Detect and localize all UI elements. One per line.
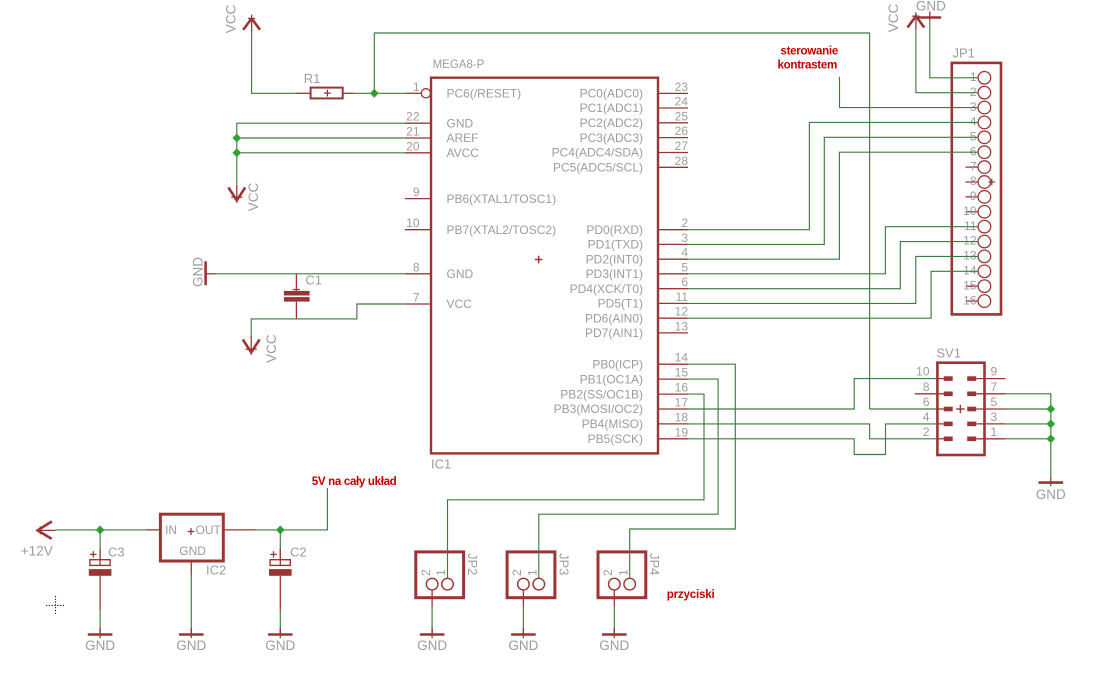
wire +12V to IC2 IN bbox=[56, 529, 146, 531]
svg-text:PB2(SS/OC1B): PB2(SS/OC1B) bbox=[560, 387, 643, 401]
junction AREF node bbox=[232, 134, 241, 143]
svg-text:1: 1 bbox=[413, 80, 420, 94]
svg-text:9: 9 bbox=[991, 365, 998, 379]
junction SV1 pin5 node bbox=[1046, 405, 1055, 414]
svg-text:GND: GND bbox=[417, 638, 447, 653]
ground symbol under JP2 bbox=[420, 628, 445, 638]
wire PB5 to SV1 pin4 bbox=[688, 424, 936, 455]
svg-text:14: 14 bbox=[675, 351, 689, 365]
svg-text:8: 8 bbox=[413, 260, 420, 274]
svg-text:3: 3 bbox=[970, 100, 977, 114]
svg-text:8: 8 bbox=[923, 380, 930, 394]
wire PD net to JP1 pin11 bbox=[688, 227, 978, 274]
wire SV1 pin1 to ground bbox=[1006, 438, 1051, 440]
IC IC1 body MEGA8-P bbox=[431, 78, 658, 454]
JP3 pin labels bbox=[510, 569, 539, 576]
svg-text:13: 13 bbox=[675, 319, 689, 333]
wire IC2 GND lead bbox=[190, 575, 192, 634]
svg-text:C3: C3 bbox=[108, 545, 125, 560]
power symbol GND top-right bbox=[918, 12, 942, 21]
wire JP2 pin2 to ground bbox=[431, 607, 433, 635]
IC1 left pin numbers bbox=[406, 80, 420, 305]
svg-text:PC1(ADC1): PC1(ADC1) bbox=[580, 101, 643, 115]
wire PB0 to JP4 bbox=[630, 364, 736, 578]
wire SV1 pin5 to ground bbox=[1006, 408, 1051, 410]
svg-text:PC3(ADC3): PC3(ADC3) bbox=[580, 131, 643, 145]
ground symbol under C3 bbox=[88, 628, 113, 638]
wire VCC to JP1 pin2 bbox=[916, 31, 978, 93]
svg-text:7: 7 bbox=[970, 159, 977, 173]
JP3 refdes bbox=[556, 553, 571, 575]
GND label under JP2 bbox=[417, 638, 447, 653]
svg-text:10: 10 bbox=[916, 365, 930, 379]
wire PD net to JP1 pin12 bbox=[688, 242, 978, 289]
svg-text:18: 18 bbox=[675, 410, 689, 424]
svg-text:PB7(XTAL2/TOSC2): PB7(XTAL2/TOSC2) bbox=[447, 223, 557, 237]
wire PB2 to JP2 bbox=[448, 394, 705, 578]
power symbol VCC top-right bbox=[908, 12, 925, 30]
wire AREF pin21 bbox=[237, 137, 405, 139]
ground symbol under JP3 bbox=[511, 628, 536, 638]
svg-text:GND: GND bbox=[447, 116, 474, 130]
svg-text:JP4: JP4 bbox=[647, 553, 662, 575]
svg-text:2: 2 bbox=[510, 569, 524, 576]
svg-text:GND: GND bbox=[191, 257, 206, 287]
IC2 pin label IN bbox=[165, 523, 177, 537]
svg-text:GND: GND bbox=[85, 638, 115, 653]
svg-text:4: 4 bbox=[970, 115, 977, 129]
svg-text:10: 10 bbox=[406, 216, 420, 230]
svg-text:21: 21 bbox=[406, 125, 420, 139]
IC1 left pin names bbox=[447, 87, 557, 312]
VCC label top-left bbox=[224, 5, 239, 34]
svg-text:VCC: VCC bbox=[246, 183, 261, 212]
JP1 pin numbers bbox=[963, 70, 977, 307]
svg-text:GND: GND bbox=[1036, 487, 1066, 502]
svg-text:11: 11 bbox=[964, 219, 977, 233]
svg-text:PD6(AIN0): PD6(AIN0) bbox=[585, 311, 643, 325]
svg-text:C2: C2 bbox=[290, 545, 307, 560]
svg-text:15: 15 bbox=[963, 278, 977, 292]
R1 label bbox=[304, 71, 321, 86]
wire PD net to JP1 pin5 bbox=[688, 137, 978, 244]
svg-text:26: 26 bbox=[675, 124, 689, 138]
voltage regulator IC2 bbox=[146, 514, 256, 575]
svg-text:PB5(SCK): PB5(SCK) bbox=[588, 432, 643, 446]
wire C1 bottom to pin7 VCC bbox=[251, 304, 405, 338]
GND label under SV1 bbox=[1036, 487, 1066, 502]
wire PB1 to JP3 bbox=[539, 379, 718, 578]
svg-text:5: 5 bbox=[991, 395, 998, 409]
JP1 unconnected pin stubs bbox=[966, 167, 979, 301]
sheet origin dotted cross bbox=[46, 596, 66, 616]
VCC label mid-left bbox=[246, 183, 261, 212]
svg-text:2: 2 bbox=[923, 425, 930, 439]
wire GND pin22 bbox=[237, 123, 405, 184]
annotation sterowanie kontrastem bbox=[778, 45, 839, 72]
svg-text:GND: GND bbox=[265, 638, 295, 653]
svg-text:PB0(ICP): PB0(ICP) bbox=[592, 357, 643, 371]
svg-text:19: 19 bbox=[675, 425, 689, 439]
svg-text:PC6(/RESET): PC6(/RESET) bbox=[447, 87, 522, 101]
junction SV1 pin1 node bbox=[1046, 434, 1055, 443]
capacitor C1 bbox=[284, 274, 310, 319]
wire IC2 OUT to 5V bbox=[256, 488, 328, 530]
junction RESET node bbox=[370, 89, 379, 98]
VCC label top-right bbox=[886, 4, 901, 33]
svg-text:7: 7 bbox=[413, 291, 420, 305]
ground symbol under JP4 bbox=[602, 628, 627, 638]
junction C2 node bbox=[276, 526, 285, 535]
svg-text:PB6(XTAL1/TOSC1): PB6(XTAL1/TOSC1) bbox=[447, 192, 557, 206]
svg-text:PC4(ADC4/SDA): PC4(ADC4/SDA) bbox=[552, 146, 643, 160]
svg-text:1: 1 bbox=[434, 569, 448, 576]
svg-text:16: 16 bbox=[963, 293, 977, 307]
svg-text:AREF: AREF bbox=[447, 131, 479, 145]
power input arrow +12V bbox=[38, 521, 56, 539]
svg-text:6: 6 bbox=[970, 144, 977, 158]
svg-text:5V na cały układ: 5V na cały układ bbox=[312, 475, 397, 488]
GND label under C2 bbox=[265, 638, 295, 653]
ground symbol under C2 bbox=[268, 628, 293, 638]
capacitor C2 bbox=[269, 530, 292, 634]
svg-text:R1: R1 bbox=[304, 71, 321, 86]
IC1 left pin stubs bbox=[405, 93, 431, 304]
svg-text:PD2(INT0): PD2(INT0) bbox=[586, 252, 643, 266]
power symbol VCC down mid-left bbox=[228, 184, 245, 203]
svg-text:2: 2 bbox=[970, 85, 977, 99]
svg-text:1: 1 bbox=[991, 425, 998, 439]
svg-text:IN: IN bbox=[165, 523, 177, 537]
IC2 pin label GND bbox=[179, 544, 206, 558]
svg-text:20: 20 bbox=[406, 139, 420, 153]
svg-text:JP2: JP2 bbox=[465, 553, 480, 575]
wire PB4 to SV1 pin2 bbox=[688, 424, 936, 439]
C3 label bbox=[108, 545, 125, 560]
svg-text:2: 2 bbox=[681, 216, 688, 230]
JP1 pin pads bbox=[978, 72, 991, 308]
svg-text:GND: GND bbox=[508, 638, 538, 653]
svg-text:8: 8 bbox=[970, 174, 977, 188]
SV1 pin numbers bbox=[916, 365, 997, 439]
junction C3 node bbox=[96, 526, 105, 535]
svg-text:GND: GND bbox=[447, 267, 474, 281]
wire GND to JP1 pin1 bbox=[930, 21, 978, 78]
svg-text:5: 5 bbox=[970, 130, 977, 144]
svg-text:PD0(RXD): PD0(RXD) bbox=[586, 223, 643, 237]
GND label under IC2 bbox=[176, 638, 206, 653]
svg-text:PC5(ADC5/SCL): PC5(ADC5/SCL) bbox=[553, 161, 643, 175]
svg-text:PD4(XCK/T0): PD4(XCK/T0) bbox=[570, 282, 643, 296]
svg-text:kontrastem: kontrastem bbox=[778, 59, 838, 72]
wire PD net to JP1 pin6 bbox=[688, 152, 978, 259]
connector SV1 body bbox=[937, 363, 984, 455]
IC1 value label MEGA8-P bbox=[433, 59, 485, 71]
svg-text:IC1: IC1 bbox=[431, 457, 451, 472]
connector JP2 bbox=[416, 552, 464, 607]
IC1 right pin names bbox=[552, 87, 643, 446]
svg-text:3: 3 bbox=[991, 410, 998, 424]
wire JP3 pin2 to ground bbox=[522, 607, 524, 635]
svg-text:1: 1 bbox=[970, 70, 977, 84]
svg-text:PD3(INT1): PD3(INT1) bbox=[586, 267, 643, 281]
SV1 refdes bbox=[936, 346, 961, 361]
junction AVCC node bbox=[232, 148, 241, 157]
C2 label bbox=[290, 545, 307, 560]
svg-text:13: 13 bbox=[963, 249, 977, 263]
svg-text:24: 24 bbox=[675, 95, 689, 109]
svg-text:sterowanie: sterowanie bbox=[780, 45, 838, 58]
wire RESET up and across top bbox=[374, 33, 869, 409]
svg-text:11: 11 bbox=[676, 290, 689, 304]
GND label top-right bbox=[916, 0, 946, 14]
junction SV1 pin3 node bbox=[1046, 420, 1055, 429]
svg-text:GND: GND bbox=[916, 0, 946, 14]
power symbol VCC down below C1 bbox=[243, 336, 260, 355]
svg-text:MEGA8-P: MEGA8-P bbox=[433, 59, 485, 71]
ground symbol under IC2 bbox=[179, 628, 204, 638]
connector JP3 bbox=[507, 552, 555, 607]
wire AVCC pin20 bbox=[237, 152, 405, 154]
svg-text:16: 16 bbox=[675, 381, 689, 395]
svg-text:14: 14 bbox=[963, 264, 977, 278]
svg-text:12: 12 bbox=[675, 305, 689, 319]
GND label under JP3 bbox=[508, 638, 538, 653]
JP1 refdes bbox=[953, 46, 975, 61]
svg-text:4: 4 bbox=[923, 410, 930, 424]
svg-text:3: 3 bbox=[681, 231, 688, 245]
svg-text:10: 10 bbox=[963, 204, 977, 218]
GND label under JP4 bbox=[599, 638, 629, 653]
svg-text:9: 9 bbox=[970, 189, 977, 203]
wire PD net to JP1 pin14 bbox=[688, 271, 978, 318]
wire PD net to JP1 pin4 bbox=[688, 122, 978, 229]
svg-text:C1: C1 bbox=[305, 273, 322, 288]
JP2 pin labels bbox=[419, 569, 448, 576]
svg-text:+12V: +12V bbox=[21, 543, 53, 558]
svg-text:JP3: JP3 bbox=[556, 553, 571, 575]
IC1 right pin numbers bbox=[675, 80, 689, 439]
wire PD net to JP1 pin13 bbox=[688, 256, 978, 303]
wire JP4 pin2 to ground bbox=[613, 607, 615, 635]
svg-text:7: 7 bbox=[991, 380, 998, 394]
svg-text:PC2(ADC2): PC2(ADC2) bbox=[580, 116, 643, 130]
C1 label bbox=[305, 273, 322, 288]
svg-text:9: 9 bbox=[413, 185, 420, 199]
svg-text:GND: GND bbox=[176, 638, 206, 653]
svg-text:VCC: VCC bbox=[886, 4, 901, 33]
svg-text:22: 22 bbox=[406, 110, 420, 124]
IC2 pin label OUT bbox=[196, 523, 222, 537]
GND label left bbox=[191, 257, 206, 287]
svg-text:VCC: VCC bbox=[264, 334, 279, 363]
svg-text:AVCC: AVCC bbox=[447, 146, 480, 160]
SV1 pin stubs bbox=[915, 379, 1006, 439]
capacitor C3 bbox=[89, 530, 112, 634]
resistor R1 bbox=[296, 88, 355, 99]
svg-text:5: 5 bbox=[681, 260, 688, 274]
VCC label below C1 bbox=[264, 334, 279, 363]
wire VCC to R1 bbox=[252, 31, 296, 94]
svg-text:4: 4 bbox=[681, 246, 688, 260]
JP4 pin labels bbox=[601, 569, 630, 576]
connector JP4 bbox=[598, 552, 646, 607]
JP1 pin8 origin cross bbox=[988, 179, 995, 186]
svg-text:VCC: VCC bbox=[224, 5, 239, 34]
IC1 pin 1 inversion circle bbox=[421, 89, 430, 98]
GND label under C3 bbox=[85, 638, 115, 653]
svg-text:17: 17 bbox=[675, 396, 689, 410]
svg-text:27: 27 bbox=[675, 139, 689, 153]
svg-text:23: 23 bbox=[675, 80, 689, 94]
connector JP1 body bbox=[952, 63, 1001, 315]
power symbol GND left bbox=[206, 261, 216, 285]
svg-text:6: 6 bbox=[923, 395, 930, 409]
svg-text:PD1(TXD): PD1(TXD) bbox=[588, 238, 643, 252]
svg-text:28: 28 bbox=[675, 154, 689, 168]
annotation przyciski bbox=[667, 588, 715, 601]
wire SV1 pin3 to ground bbox=[1006, 423, 1051, 425]
wire contrast to JP1 pin3 bbox=[840, 77, 979, 108]
JP4 refdes bbox=[647, 553, 662, 575]
wire SV1 pin7 to ground bbox=[1006, 394, 1051, 477]
svg-text:1: 1 bbox=[526, 569, 540, 576]
svg-text:JP1: JP1 bbox=[953, 46, 975, 61]
svg-text:PB4(MISO): PB4(MISO) bbox=[582, 417, 643, 431]
IC1 right pin stubs bbox=[658, 93, 688, 438]
svg-text:2: 2 bbox=[419, 569, 433, 576]
svg-text:2: 2 bbox=[601, 569, 615, 576]
wire RESET into SV1 pin6 bbox=[870, 408, 936, 410]
svg-text:przyciski: przyciski bbox=[667, 588, 715, 601]
svg-text:15: 15 bbox=[675, 366, 689, 380]
svg-text:12: 12 bbox=[963, 234, 977, 248]
svg-text:PB1(OC1A): PB1(OC1A) bbox=[580, 372, 643, 386]
svg-text:1: 1 bbox=[616, 569, 630, 576]
svg-text:25: 25 bbox=[675, 109, 689, 123]
svg-text:PC0(ADC0): PC0(ADC0) bbox=[580, 87, 643, 101]
SV1 pin pads bbox=[944, 376, 977, 441]
svg-text:IC2: IC2 bbox=[206, 563, 226, 578]
svg-text:GND: GND bbox=[599, 638, 629, 653]
JP2 refdes bbox=[465, 553, 480, 575]
svg-text:PD5(T1): PD5(T1) bbox=[598, 297, 643, 311]
svg-text:OUT: OUT bbox=[196, 523, 222, 537]
wire PB3 to SV1 pin10 bbox=[688, 379, 936, 409]
ground symbol under SV1 bbox=[1039, 476, 1064, 486]
svg-text:6: 6 bbox=[681, 275, 688, 289]
svg-text:VCC: VCC bbox=[447, 297, 473, 311]
power symbol VCC top-left bbox=[243, 15, 260, 33]
svg-text:SV1: SV1 bbox=[936, 346, 961, 361]
wire GND to pin8 bbox=[216, 273, 406, 275]
+12V label bbox=[21, 543, 53, 558]
svg-text:GND: GND bbox=[179, 544, 206, 558]
svg-text:PD7(AIN1): PD7(AIN1) bbox=[585, 326, 643, 340]
IC2 refdes bbox=[206, 563, 226, 578]
annotation 5V na caly uklad bbox=[312, 475, 397, 488]
svg-text:PB3(MOSI/OC2): PB3(MOSI/OC2) bbox=[554, 402, 643, 416]
IC1 refdes IC1 bbox=[431, 457, 451, 472]
wire R1 to pin1 bbox=[354, 92, 405, 94]
